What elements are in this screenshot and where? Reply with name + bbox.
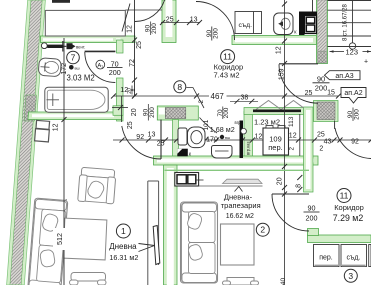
living door panel leaf — [153, 226, 160, 265]
svg-text:пер.: пер. — [268, 143, 283, 152]
svg-text:25: 25 — [317, 132, 325, 139]
tag ap.A2 — [341, 88, 366, 104]
black box top edge — [52, 0, 70, 3]
svg-text:пер.: пер. — [319, 255, 333, 262]
wall column A2 door — [314, 101, 339, 122]
svg-text:11: 11 — [223, 52, 232, 62]
wall corridor8 top with dense column — [157, 106, 198, 120]
room circle 3 — [344, 269, 357, 282]
living sofa — [28, 198, 68, 285]
svg-text:7.29 м2: 7.29 м2 — [333, 213, 364, 223]
svg-text:15: 15 — [327, 90, 335, 97]
tick line y107.5 — [112, 107, 128, 109]
closet rod thick line — [253, 110, 301, 113]
dining chair bottom — [223, 278, 259, 285]
vent duct icons in bathroom top wall — [41, 41, 85, 52]
label 90/200 rotated entry door — [206, 27, 220, 41]
door A2 leaf — [334, 121, 336, 130]
living window frame lines — [148, 181, 159, 285]
svg-text:25: 25 — [157, 141, 165, 148]
svg-text:вент.: вент. — [76, 44, 85, 49]
closet inner line — [299, 114, 301, 156]
door bathroom leaf — [85, 50, 116, 52]
living armchair top — [78, 167, 117, 204]
svg-text:25: 25 — [305, 90, 313, 97]
door living arc — [122, 126, 161, 159]
door bathroom arc — [85, 52, 116, 83]
svg-text:3: 3 — [348, 271, 353, 281]
svg-text:512: 512 — [55, 233, 64, 245]
wall wc left — [173, 120, 179, 158]
svg-text:38: 38 — [241, 95, 249, 102]
svg-text:вш: вш — [75, 66, 80, 70]
wall corridor11 top right — [232, 36, 317, 45]
svg-text:467: 467 — [211, 92, 225, 101]
door dining-corridor leaf — [272, 193, 309, 195]
svg-text:11: 11 — [340, 191, 349, 201]
wc toilet — [178, 127, 205, 148]
bathtub — [45, 87, 108, 112]
svg-text:2: 2 — [260, 225, 265, 235]
svg-text:25: 25 — [136, 41, 143, 49]
leader circle8 — [186, 88, 204, 108]
wall wc right closet left — [244, 112, 253, 158]
svg-text:вш: вш — [225, 136, 230, 140]
svg-text:43: 43 — [324, 139, 332, 146]
corridor 11 circle and label — [213, 50, 243, 80]
svg-text:12: 12 — [126, 25, 133, 33]
svg-text:12: 12 — [275, 46, 282, 54]
svg-text:вгр.: вгр. — [235, 120, 242, 125]
svg-text:+: + — [364, 59, 368, 66]
wc black marker — [177, 149, 192, 158]
door A3 arc — [279, 64, 318, 103]
ticks on axis center-right — [282, 2, 287, 197]
wall living dining divider — [164, 165, 178, 285]
dim line y140 main chain — [113, 139, 371, 141]
svg-text:200: 200 — [223, 107, 230, 118]
svg-text:Дневна: Дневна — [109, 242, 137, 251]
door A3 leaf — [279, 63, 318, 65]
svg-text:съд.: съд. — [239, 22, 253, 29]
svg-text:200: 200 — [306, 214, 318, 223]
wc drain dot — [220, 135, 230, 140]
wall bathroom right with door opening — [117, 40, 124, 121]
svg-text:25: 25 — [166, 17, 174, 24]
svg-text:трапезария: трапезария — [221, 201, 261, 210]
line closet top — [45, 9, 125, 11]
stair treads — [328, 1, 371, 47]
fraction bars rotated labels — [132, 22, 353, 122]
svg-text:200: 200 — [212, 28, 219, 39]
label 512 rotated over sofa — [53, 228, 65, 250]
line upper hall top — [125, 9, 162, 11]
washer box 109 — [263, 126, 289, 156]
svg-text:200: 200 — [315, 83, 328, 92]
door jamb line top hall — [134, 0, 136, 96]
svg-text:8: 8 — [177, 82, 182, 92]
svg-text:2: 2 — [319, 146, 323, 153]
dining top inner line — [199, 185, 263, 187]
wc sink — [212, 146, 233, 159]
dim y22.5 top — [160, 17, 202, 26]
svg-text:12: 12 — [52, 123, 59, 131]
dishwasher box top — [235, 12, 262, 34]
svg-text:12: 12 — [255, 134, 263, 141]
wall bathroom top — [41, 36, 136, 43]
svg-text:20: 20 — [276, 177, 283, 185]
room circle 2 — [256, 223, 269, 236]
svg-text:7: 7 — [71, 53, 76, 63]
svg-text:200: 200 — [151, 23, 158, 34]
svg-text:12: 12 — [289, 133, 297, 140]
boxes per sud bottom right — [314, 245, 371, 267]
toilet top right — [274, 13, 293, 35]
svg-text:А₁: А₁ — [98, 63, 104, 69]
tv dining — [223, 179, 263, 183]
door label A1 70/200 — [96, 59, 123, 77]
tv leader arrow — [235, 187, 243, 192]
svg-text:113: 113 — [288, 116, 295, 127]
door arc top-left — [135, 0, 165, 22]
dining sofa — [181, 202, 218, 283]
svg-text:25: 25 — [127, 121, 134, 129]
dim line 467 — [113, 95, 339, 97]
tag ap.A3 — [325, 71, 361, 80]
svg-text:92: 92 — [351, 139, 359, 146]
closet hanger zigzag — [256, 101, 304, 110]
svg-text:200: 200 — [109, 68, 121, 77]
bathroom floor drain dot — [69, 65, 80, 70]
stair walk line — [349, 0, 355, 49]
closet top-left white box — [45, 11, 125, 37]
wall stair hatched — [317, 0, 328, 64]
living coffee table — [63, 218, 107, 260]
svg-text:200: 200 — [149, 107, 156, 118]
door leaf diagonal top hall — [122, 4, 130, 32]
svg-text:13: 13 — [190, 17, 198, 24]
washing machine below bathroom — [35, 120, 50, 142]
svg-text:200: 200 — [354, 109, 361, 120]
svg-text:съд.: съд. — [347, 255, 361, 262]
door living leaf — [160, 120, 162, 160]
wall bathroom bottom / living top — [28, 106, 123, 120]
vgr bar closet — [235, 120, 251, 158]
wall closet top — [244, 108, 306, 115]
room circle 8 — [174, 81, 186, 93]
svg-text:Коридор: Коридор — [334, 203, 364, 212]
wall closet right / corridor west — [304, 107, 314, 192]
living armchair bottom — [70, 273, 107, 285]
svg-text:16.31 м2: 16.31 м2 — [109, 253, 138, 262]
wc leader curve — [200, 118, 218, 134]
dim 123 — [330, 48, 371, 66]
wall left dense column block — [24, 95, 36, 121]
room circle 7 — [67, 51, 80, 64]
svg-text:8 ст. 16.67/28: 8 ст. 16.67/28 — [343, 4, 349, 41]
corridor 7.29 circle and label — [333, 189, 364, 224]
svg-text:123: 123 — [346, 48, 359, 57]
door dining-corridor arc — [272, 194, 309, 231]
media box dining — [175, 173, 204, 187]
wall big bottom dining top — [154, 156, 319, 165]
svg-text:40: 40 — [280, 278, 287, 285]
wall corridor11 left double — [162, 0, 176, 43]
svg-text:170: 170 — [206, 137, 218, 144]
svg-text:20: 20 — [131, 108, 138, 116]
svg-text:7.43 м2: 7.43 м2 — [213, 71, 239, 80]
door arc entry corridor11 — [196, 2, 235, 41]
svg-text:ап.А2: ап.А2 — [344, 90, 362, 97]
svg-text:90: 90 — [308, 204, 316, 213]
dim 38 small — [230, 95, 258, 104]
dim 90/200 A3 — [313, 74, 330, 92]
dining table — [221, 224, 255, 265]
dining room label — [221, 193, 261, 221]
dim 467 ticks — [111, 94, 341, 99]
svg-text:вгр.каз.: вгр.каз. — [246, 140, 251, 155]
bathroom sink — [38, 58, 61, 77]
svg-text:1: 1 — [121, 226, 126, 236]
axis line vertical center-right — [284, 0, 286, 285]
svg-text:3.03 М2: 3.03 М2 — [67, 74, 95, 83]
svg-text:90: 90 — [317, 74, 325, 83]
dining inner wall face line — [165, 169, 310, 171]
svg-text:1,68 м2: 1,68 м2 — [210, 125, 235, 134]
svg-text:92: 92 — [136, 134, 144, 141]
black L shaft top right — [299, 12, 317, 36]
dim 90/200 corridor door — [304, 204, 320, 223]
wall corridor bottom — [308, 229, 371, 243]
room circle 1 — [116, 224, 130, 238]
jamb stub line corridor8 left — [121, 96, 123, 122]
svg-text:72: 72 — [129, 59, 136, 67]
axis line living room vertical — [63, 38, 65, 285]
wall left slanted facade strip — [7, 0, 46, 285]
door A2 arc — [335, 128, 371, 159]
svg-text:8: 8 — [295, 184, 302, 188]
svg-text:ап.А3: ап.А3 — [335, 73, 353, 80]
living label leader arrow — [139, 244, 155, 252]
svg-text:16.62 м2: 16.62 м2 — [226, 213, 254, 220]
svg-text:13: 13 — [148, 132, 156, 139]
